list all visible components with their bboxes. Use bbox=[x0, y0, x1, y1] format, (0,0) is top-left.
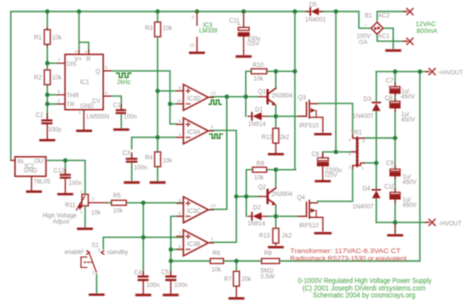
svg-text:5: 5 bbox=[105, 90, 108, 95]
svg-text:THR: THR bbox=[67, 93, 80, 99]
diode D1 1N914 bbox=[248, 112, 267, 120]
ground under C1 bbox=[115, 128, 129, 130]
capacitor C6 polarized bbox=[318, 153, 329, 180]
svg-text:3: 3 bbox=[105, 65, 108, 70]
svg-text:4: 4 bbox=[179, 132, 182, 137]
svg-text:R2: R2 bbox=[34, 76, 42, 82]
svg-text:Radioshack RS273-1530 or equiv: Radioshack RS273-1530 or equivalent bbox=[290, 255, 407, 262]
svg-text:100n: 100n bbox=[134, 165, 147, 171]
svg-text:R9: R9 bbox=[257, 162, 265, 168]
svg-text:10k: 10k bbox=[113, 209, 124, 215]
ground under IC1 bbox=[77, 130, 91, 132]
svg-text:100n: 100n bbox=[124, 115, 137, 121]
svg-text:R12: R12 bbox=[262, 135, 274, 141]
svg-text:OUT: OUT bbox=[34, 159, 47, 165]
potentiometer R11 bbox=[76, 194, 107, 210]
svg-text:8: 8 bbox=[179, 211, 182, 216]
svg-text:10k: 10k bbox=[212, 268, 223, 274]
svg-text:0-1000V Regulated High Voltage: 0-1000V Regulated High Voltage Power Sup… bbox=[298, 278, 432, 285]
resistor R9 bbox=[253, 167, 267, 172]
svg-text:4: 4 bbox=[348, 138, 351, 143]
svg-text:10k: 10k bbox=[163, 159, 174, 165]
ground at -HV rail bbox=[394, 224, 396, 234]
resistor R8 bbox=[262, 259, 280, 264]
ground under C2 bbox=[41, 139, 55, 141]
svg-text:78L05: 78L05 bbox=[34, 179, 51, 185]
svg-text:Q4: Q4 bbox=[297, 196, 306, 202]
svg-text:+: + bbox=[391, 188, 394, 193]
svg-text:Q: Q bbox=[96, 69, 101, 75]
svg-text:C4: C4 bbox=[134, 270, 142, 276]
svg-text:C2: C2 bbox=[36, 113, 44, 119]
wire R6 R7 R8 feedback divider bbox=[224, 72, 420, 271]
svg-text:330p: 330p bbox=[48, 128, 62, 134]
svg-text:AC2: AC2 bbox=[378, 14, 390, 20]
ground under IC3 power bbox=[190, 52, 204, 54]
wire rail to TR1 center tap bbox=[323, 12, 353, 158]
svg-text:2k2: 2k2 bbox=[280, 135, 290, 141]
svg-text:10: 10 bbox=[177, 99, 183, 104]
diode D5 1N4001 bbox=[306, 8, 323, 16]
svg-text:R4: R4 bbox=[145, 155, 153, 161]
svg-text:GND: GND bbox=[24, 169, 38, 175]
comparator IC3B bbox=[177, 230, 214, 256]
svg-text:D4: D4 bbox=[363, 187, 371, 193]
ground under C5 bbox=[164, 294, 178, 296]
svg-text:C1: C1 bbox=[113, 103, 121, 109]
capacitor C7 bbox=[390, 87, 400, 94]
svg-text:2N3904: 2N3904 bbox=[272, 94, 294, 100]
svg-text:enable: enable bbox=[65, 250, 84, 256]
svg-text:TR: TR bbox=[67, 103, 76, 109]
wire CV to C1 bbox=[111, 96, 121, 109]
ground under Q3 bbox=[315, 133, 330, 135]
wire Q1 base pullup network bbox=[246, 12, 306, 170]
svg-text:IC3B: IC3B bbox=[187, 242, 200, 248]
svg-text:R3: R3 bbox=[145, 26, 153, 32]
svg-text:6: 6 bbox=[179, 244, 182, 249]
comparator IC3D bbox=[177, 84, 214, 110]
square wave at IC3A output bbox=[210, 134, 223, 138]
svg-text:10k: 10k bbox=[91, 211, 102, 217]
svg-text:C12: C12 bbox=[54, 168, 66, 174]
ground under C6 bbox=[316, 180, 330, 182]
svg-text:R13: R13 bbox=[259, 234, 271, 240]
svg-text:Adjust: Adjust bbox=[53, 220, 70, 226]
svg-text:2: 2 bbox=[211, 124, 214, 129]
svg-text:+: + bbox=[316, 156, 320, 162]
svg-text:IRF510: IRF510 bbox=[299, 224, 319, 230]
svg-text:-HVOUT: -HVOUT bbox=[439, 222, 462, 228]
red pin stubs on capacitor stems bbox=[47, 83, 395, 275]
bridge rectifier B1 bbox=[371, 22, 383, 34]
svg-text:IRF510: IRF510 bbox=[299, 124, 319, 130]
svg-text:2N3904: 2N3904 bbox=[272, 192, 294, 198]
svg-text:+: + bbox=[237, 23, 241, 29]
svg-text:R5: R5 bbox=[113, 194, 121, 200]
svg-text:R11: R11 bbox=[65, 203, 76, 209]
transformer TR1 bbox=[352, 135, 365, 169]
pad X +HVOUT bbox=[426, 69, 436, 75]
svg-text:R10: R10 bbox=[253, 63, 265, 69]
wire +HV top rail bbox=[376, 72, 428, 223]
svg-text:450V: 450V bbox=[403, 180, 417, 186]
svg-text:4: 4 bbox=[85, 49, 88, 54]
ground under R7 bbox=[230, 297, 244, 299]
resistor R6 bbox=[210, 259, 223, 264]
svg-text:800mA: 800mA bbox=[417, 28, 438, 35]
svg-text:0.5W: 0.5W bbox=[261, 275, 275, 281]
svg-text:2: 2 bbox=[348, 165, 351, 170]
svg-text:AC1: AC1 bbox=[378, 34, 390, 40]
svg-text:standby: standby bbox=[107, 250, 128, 256]
svg-text:IC3D: IC3D bbox=[187, 97, 201, 103]
wire IC1 V+ and R bracket bbox=[79, 12, 89, 51]
svg-text:2k2: 2k2 bbox=[282, 234, 292, 240]
capacitor C4 bbox=[138, 275, 149, 281]
svg-text:12VAC: 12VAC bbox=[416, 21, 437, 28]
svg-text:10k: 10k bbox=[254, 77, 265, 83]
capacitor C12 bbox=[60, 174, 71, 179]
wire +12V rail bbox=[11, 12, 371, 161]
svg-text:1N4007: 1N4007 bbox=[353, 114, 375, 120]
wire IC2 OUT to pot bbox=[48, 160, 86, 227]
svg-text:13: 13 bbox=[211, 91, 217, 96]
comparator IC3C bbox=[177, 197, 214, 223]
svg-text:100n: 100n bbox=[146, 283, 159, 289]
svg-text:450V: 450V bbox=[403, 203, 417, 209]
svg-text:+: + bbox=[365, 23, 368, 28]
svg-text:12: 12 bbox=[190, 43, 196, 48]
svg-text:100n: 100n bbox=[174, 283, 187, 289]
capacitor C9 bbox=[390, 169, 400, 176]
svg-text:D3: D3 bbox=[364, 97, 372, 103]
capacitor C2 bbox=[41, 119, 52, 138]
svg-text:10k: 10k bbox=[52, 76, 63, 82]
pad X 12VAC bottom bbox=[404, 38, 414, 44]
resistor R1 bbox=[44, 28, 50, 47]
wire bridge AC1 to pad bbox=[377, 34, 407, 41]
svg-text:IC3A: IC3A bbox=[187, 130, 200, 136]
svg-text:R: R bbox=[86, 57, 91, 63]
ground under bridge bbox=[387, 49, 401, 51]
svg-text:7: 7 bbox=[179, 231, 182, 236]
svg-text:IN: IN bbox=[18, 159, 24, 165]
svg-text:Schematic 2004 by cosmicrays.o: Schematic 2004 by cosmicrays.org bbox=[313, 293, 416, 300]
wire R3 R4 triangle node bbox=[132, 12, 177, 152]
svg-text:1N4007: 1N4007 bbox=[353, 205, 375, 211]
svg-text:Q3: Q3 bbox=[298, 96, 307, 102]
svg-text:LM339: LM339 bbox=[199, 29, 218, 35]
wire C4 C5 stems bbox=[142, 273, 144, 275]
2kHz square wave symbol bbox=[116, 73, 130, 77]
transistor Q1 2N3904 bbox=[259, 88, 276, 105]
svg-text:1: 1 bbox=[82, 248, 85, 253]
svg-text:GND: GND bbox=[80, 104, 94, 110]
svg-text:9: 9 bbox=[179, 198, 182, 203]
svg-text:C3: C3 bbox=[122, 151, 130, 157]
diode D3 1N4007 bbox=[372, 103, 380, 112]
svg-text:R6: R6 bbox=[213, 251, 221, 257]
wire TR1 pin5 to C8 node bbox=[364, 137, 395, 139]
svg-text:2: 2 bbox=[92, 271, 95, 276]
ground under C3 bbox=[125, 181, 139, 183]
ground under S1 bbox=[90, 294, 104, 296]
pad X 12VAC top bbox=[404, 9, 414, 15]
resistor R5 bbox=[111, 200, 126, 205]
svg-text:9: 9 bbox=[179, 86, 182, 91]
ground under R12 bbox=[269, 153, 283, 155]
svg-text:6: 6 bbox=[58, 89, 61, 94]
svg-text:+: + bbox=[387, 83, 390, 88]
svg-text:R8: R8 bbox=[264, 251, 272, 257]
svg-text:High Voltage: High Voltage bbox=[43, 213, 78, 219]
pad X -HVOUT bbox=[426, 219, 436, 225]
wire C2 C3 stems bbox=[47, 114, 157, 181]
svg-text:IC1: IC1 bbox=[80, 80, 90, 86]
svg-text:1N914: 1N914 bbox=[248, 222, 266, 228]
resistor R4 bbox=[155, 152, 161, 167]
svg-text:3: 3 bbox=[80, 190, 83, 195]
svg-text:2: 2 bbox=[58, 98, 61, 103]
svg-text:8: 8 bbox=[75, 49, 78, 54]
capacitor C1 bbox=[116, 109, 126, 114]
resistor R13 bbox=[273, 228, 279, 245]
svg-text:Q1: Q1 bbox=[258, 90, 267, 96]
ground under R11 bbox=[78, 228, 92, 230]
ground under C11 bbox=[237, 55, 251, 57]
svg-text:D5: D5 bbox=[309, 3, 317, 9]
wire bridge AC2 to pad bbox=[377, 12, 407, 23]
svg-text:IC3C: IC3C bbox=[187, 209, 201, 215]
wire IC3C minus IC3B minus feedback node bbox=[171, 216, 210, 275]
svg-text:(C) 2001 Joseph DiVerdi xtrsy: (C) 2001 Joseph DiVerdi xtrsystems.com bbox=[303, 285, 426, 292]
resistor R3 bbox=[155, 22, 161, 37]
svg-text:2kHz: 2kHz bbox=[117, 80, 131, 86]
wire pot wiper to R5 to IC3C plus bbox=[107, 203, 183, 275]
svg-text:450V: 450V bbox=[401, 117, 415, 123]
svg-text:+: + bbox=[387, 98, 390, 103]
svg-text:10k: 10k bbox=[52, 36, 63, 42]
svg-text:20k: 20k bbox=[242, 277, 253, 283]
resistor R7 bbox=[233, 271, 239, 297]
capacitor C8 bbox=[390, 101, 400, 108]
switch S1 bbox=[81, 251, 104, 272]
ground under R4 bbox=[151, 181, 165, 183]
svg-text:R7: R7 bbox=[224, 277, 232, 283]
diode D4 1N4007 bbox=[372, 190, 380, 199]
svg-text:/25V: /25V bbox=[247, 42, 259, 48]
ground under C4 bbox=[137, 294, 151, 296]
wire D3 column bbox=[375, 72, 377, 223]
svg-text:450V: 450V bbox=[401, 95, 415, 101]
svg-text:/1A: /1A bbox=[359, 40, 368, 46]
IC2 78L05 bbox=[11, 157, 46, 191]
svg-text:D1: D1 bbox=[255, 108, 263, 114]
svg-text:5: 5 bbox=[363, 139, 366, 144]
svg-text:TR1: TR1 bbox=[351, 131, 363, 137]
svg-text:1: 1 bbox=[80, 210, 83, 215]
mosfet Q3 IRF510 bbox=[298, 100, 323, 132]
ground under C12 bbox=[59, 193, 73, 195]
svg-text:+HVOUT: +HVOUT bbox=[439, 71, 464, 77]
wire TR1 pin1 to D3 D4 node bbox=[364, 162, 376, 164]
mosfet Q4 IRF510 bbox=[298, 200, 323, 231]
svg-text:1: 1 bbox=[211, 236, 214, 241]
wire comparator outputs 13 and 14 tie bbox=[211, 97, 260, 210]
wire standby switch to comparator bbox=[97, 237, 144, 293]
svg-text:LM555N: LM555N bbox=[87, 115, 110, 121]
svg-text:B1: B1 bbox=[365, 14, 373, 20]
svg-text:1N4001: 1N4001 bbox=[305, 18, 327, 24]
svg-text:3: 3 bbox=[192, 15, 195, 20]
square wave at IC3D output bbox=[209, 100, 221, 104]
svg-text:1: 1 bbox=[79, 110, 82, 115]
svg-text:C5: C5 bbox=[161, 270, 169, 276]
svg-text:10k: 10k bbox=[254, 176, 265, 182]
wire Q3 drain to TR1 pin4 bbox=[318, 103, 353, 136]
resistor R10 bbox=[251, 69, 267, 74]
comparator IC3A bbox=[177, 118, 214, 144]
wire comparator outputs 2 and 1 tie bbox=[211, 130, 260, 242]
svg-text:2: 2 bbox=[92, 196, 95, 201]
svg-text:R1: R1 bbox=[34, 36, 42, 42]
resistor R12 bbox=[273, 128, 279, 152]
capacitor C5 bbox=[165, 275, 176, 281]
wire Q2 base pullup network bbox=[246, 170, 306, 229]
capacitor C10 bbox=[390, 192, 400, 199]
diode D2 1N914 bbox=[248, 212, 267, 220]
svg-text:1N914: 1N914 bbox=[248, 122, 266, 128]
transistor Q2 2N3904 bbox=[259, 188, 276, 205]
ground under Q4 bbox=[315, 232, 330, 234]
ground under IC2 bbox=[27, 190, 41, 192]
wire -HV bottom rail bbox=[376, 222, 428, 231]
wire Q4 drain to TR1 pin2 bbox=[318, 166, 353, 201]
ground under R13 bbox=[269, 246, 283, 248]
capacitor C3 bbox=[126, 158, 138, 163]
svg-text:100n: 100n bbox=[69, 181, 82, 187]
resistor R2 bbox=[44, 70, 50, 85]
wire R1 R2 DIS THR TR chain bbox=[47, 12, 57, 118]
wire IC1 Q output to comparators bbox=[111, 71, 177, 124]
svg-text:10k: 10k bbox=[163, 26, 174, 32]
svg-text:/25V: /25V bbox=[325, 173, 337, 179]
svg-text:Transformer: 117VAC-6.3VAC CT: Transformer: 117VAC-6.3VAC CT bbox=[290, 248, 401, 255]
IC3 power symbol bbox=[196, 12, 198, 52]
svg-text:-: - bbox=[386, 23, 388, 28]
capacitor C11 polarized bbox=[238, 13, 249, 55]
svg-text:+: + bbox=[391, 165, 394, 170]
svg-text:14: 14 bbox=[211, 203, 217, 208]
svg-text:5: 5 bbox=[179, 119, 182, 124]
svg-text:3: 3 bbox=[348, 152, 351, 157]
wire bridge minus to ground bbox=[383, 28, 393, 48]
svg-text:7: 7 bbox=[58, 58, 61, 63]
svg-text:Q2: Q2 bbox=[258, 185, 267, 191]
IC1 LM555N bbox=[58, 51, 111, 130]
svg-text:V+: V+ bbox=[75, 57, 83, 63]
svg-text:1: 1 bbox=[362, 166, 365, 171]
svg-text:3: 3 bbox=[98, 248, 101, 253]
svg-text:D2: D2 bbox=[253, 206, 261, 212]
